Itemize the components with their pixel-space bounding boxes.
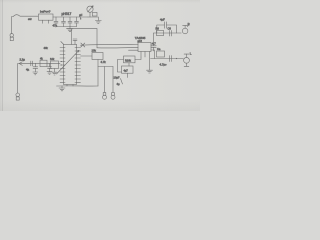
- svg-text:4.7: 4.7: [152, 42, 156, 46]
- svg-text:4.7µ+: 4.7µ+: [160, 63, 167, 67]
- feedback cap C9: [157, 22, 177, 33]
- svg-text:4.7k: 4.7k: [101, 60, 107, 64]
- svg-text:µH517: µH517: [62, 12, 72, 16]
- svg-text:40k: 40k: [44, 46, 49, 50]
- resistor R2: [92, 53, 103, 60]
- wire cap rail: [56, 26, 77, 28]
- box Ca: [157, 51, 165, 57]
- wire out top: [151, 33, 154, 44]
- capacitor C1: [54, 17, 58, 27]
- pins U1 right: [77, 48, 81, 83]
- wire top rail: [154, 32, 182, 34]
- svg-text:baPov?: baPov?: [40, 10, 51, 14]
- svg-text:10k: 10k: [92, 49, 97, 53]
- IC U1 DIP: [64, 44, 77, 84]
- node dots: [61, 61, 62, 62]
- pin top stub: [73, 39, 77, 45]
- power box BAT: [39, 14, 54, 20]
- capacitor C4: [75, 17, 79, 27]
- resistor R1: [40, 60, 47, 66]
- svg-text:47µ: 47µ: [53, 24, 58, 28]
- pin bottom stubs: [67, 85, 73, 87]
- capacitor C5s: [31, 61, 33, 66]
- wire probe riser B: [112, 67, 114, 93]
- wire battery to switch: [11, 17, 13, 34]
- capacitor C2: [62, 17, 66, 27]
- ground G2: [95, 21, 101, 24]
- switch SW1: [12, 15, 38, 17]
- svg-text:C8: C8: [168, 27, 172, 31]
- svg-text:R10k: R10k: [125, 59, 132, 62]
- svg-text:4µ7: 4µ7: [124, 70, 129, 73]
- box D1: [92, 12, 97, 16]
- probe plug P2: [111, 93, 115, 100]
- svg-text:R6: R6: [156, 27, 160, 31]
- pin U2 left 3: [129, 49, 139, 51]
- ground G4: [59, 86, 65, 91]
- capacitor C11: [122, 66, 134, 73]
- wire probe riser A: [104, 67, 106, 93]
- wire to ground: [88, 17, 98, 20]
- tick mark: [121, 79, 123, 85]
- wire R2 left: [81, 55, 93, 57]
- pin ticks inner: [64, 48, 77, 83]
- wire R2 ground riser: [97, 60, 99, 87]
- wire input riser: [17, 64, 19, 94]
- wire R4 left: [118, 60, 124, 73]
- svg-text:4µ: 4µ: [117, 82, 120, 86]
- wire regulator rail: [53, 16, 88, 18]
- jack J3: [182, 25, 189, 34]
- capacitor C7: [151, 44, 156, 51]
- resistor R4: [124, 56, 136, 63]
- jack J4: [184, 54, 190, 66]
- input jack J2: [16, 93, 20, 100]
- wire C11 stub: [128, 63, 130, 78]
- probe plug P1: [103, 93, 107, 100]
- capacitor C10: [170, 56, 172, 62]
- node junction: [80, 18, 81, 19]
- ground G1: [67, 27, 73, 32]
- wire pot ground: [52, 69, 57, 76]
- hatch X pins: [61, 42, 85, 48]
- svg-text:µF: µF: [79, 13, 82, 17]
- ground G3: [33, 72, 38, 75]
- svg-text:L: L: [190, 52, 192, 56]
- wire out bottom: [151, 50, 155, 59]
- wire R4 right: [135, 57, 141, 60]
- capacitor C3: [68, 17, 72, 27]
- pins U1 left: [60, 48, 64, 83]
- capacitor C6: [47, 64, 52, 75]
- svg-text:10k: 10k: [50, 57, 55, 61]
- wire diagonal: [57, 50, 80, 74]
- svg-text:10µF: 10µF: [114, 76, 120, 80]
- wire bottom out rail: [151, 58, 184, 60]
- lamp DS1: [87, 6, 93, 17]
- svg-text:R: R: [188, 22, 190, 26]
- pot VR1: [51, 61, 59, 69]
- wire input rail: [18, 62, 60, 64]
- resistor R6: [157, 30, 164, 35]
- battery connector J1: [10, 34, 13, 41]
- wire signal to amp B: [97, 47, 138, 49]
- svg-text:4µF: 4µF: [160, 18, 165, 22]
- arrow input: [19, 62, 22, 66]
- wire signal to amp A: [81, 44, 139, 47]
- wire bottom rail: [57, 85, 99, 87]
- pins U2 bottom: [141, 52, 150, 71]
- wire mid tap: [98, 66, 113, 68]
- capacitor C8: [170, 30, 172, 36]
- node dot out: [176, 58, 177, 59]
- IC U2: [138, 43, 151, 52]
- svg-text:sw: sw: [28, 17, 32, 21]
- wire ic top feed: [71, 29, 73, 45]
- capacitor C5: [33, 64, 38, 72]
- box legs: [43, 20, 49, 23]
- svg-text:4µ: 4µ: [26, 68, 29, 72]
- svg-text:2.2µ: 2.2µ: [20, 58, 26, 62]
- ground G5: [147, 70, 153, 73]
- wire mid rail: [67, 29, 98, 48]
- svg-text:Ca: Ca: [157, 47, 161, 51]
